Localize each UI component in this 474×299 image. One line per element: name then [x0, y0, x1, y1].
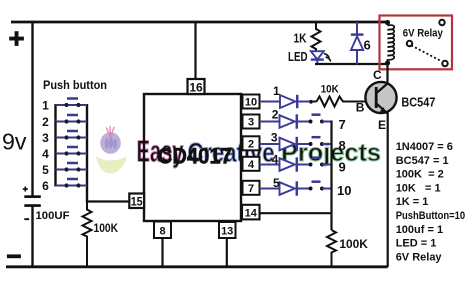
wire left rail upper	[31, 21, 33, 196]
svg-text:LED = 1: LED = 1	[396, 238, 437, 250]
pin 2	[243, 136, 260, 150]
wire pin13	[226, 238, 228, 267]
svg-text:13: 13	[221, 226, 233, 238]
svg-text:1: 1	[42, 98, 49, 112]
push buttons SW1-SW6	[42, 98, 87, 193]
svg-text:4: 4	[248, 159, 255, 171]
svg-text:10: 10	[245, 97, 257, 109]
node plus terminal	[9, 31, 24, 46]
parts list	[396, 141, 466, 263]
svg-text:BC547 = 1: BC547 = 1	[396, 155, 449, 167]
resistor R3 100K right	[327, 230, 336, 267]
diode D6	[351, 22, 371, 65]
svg-text:6V Relay: 6V Relay	[403, 27, 444, 39]
svg-text:2: 2	[248, 139, 254, 151]
wire pin16	[194, 22, 196, 81]
svg-text:B: B	[356, 101, 365, 115]
wire pin15	[87, 200, 130, 202]
relay contact dotted line	[412, 46, 442, 62]
svg-text:3: 3	[42, 131, 49, 145]
wire pushbutton left bus	[54, 104, 56, 187]
svg-text:2: 2	[272, 108, 279, 122]
pin 3	[243, 115, 260, 129]
relay box K1	[380, 16, 453, 70]
wire left rail lower	[31, 206, 33, 267]
svg-text:6V Relay: 6V Relay	[396, 251, 443, 263]
IC U1 CD4017 body	[144, 94, 241, 221]
svg-text:7: 7	[339, 117, 346, 132]
watermark text Easy Creative Projects	[137, 134, 382, 169]
pin 15	[129, 194, 144, 209]
svg-text:E: E	[378, 118, 386, 132]
svg-text:C: C	[373, 68, 382, 82]
svg-text:15: 15	[131, 194, 143, 208]
pin 13	[219, 222, 236, 238]
wire top bus	[11, 21, 388, 24]
watermark logo	[96, 127, 127, 174]
resistor R1 100K left	[83, 203, 92, 268]
wire bottom bus	[6, 265, 388, 268]
pin 10	[243, 95, 260, 109]
pin 16	[188, 79, 205, 95]
svg-text:6: 6	[42, 179, 49, 193]
diode D5 row + switch SW10	[260, 176, 352, 198]
node minus terminal	[7, 254, 21, 258]
svg-text:8: 8	[159, 226, 165, 238]
svg-text:6: 6	[364, 37, 371, 52]
svg-text:8: 8	[339, 138, 346, 153]
resistor R4 1K	[312, 22, 321, 52]
svg-text:10K: 10K	[321, 84, 339, 96]
diode D3 row + switch SW8	[260, 131, 346, 154]
svg-text:7: 7	[248, 183, 254, 195]
svg-text:2: 2	[42, 115, 49, 129]
svg-text:LED: LED	[288, 49, 308, 64]
resistor R2 10K	[317, 97, 375, 107]
wire pin14	[260, 212, 332, 214]
wire pin8	[161, 238, 163, 267]
svg-text:5: 5	[42, 163, 49, 177]
relay contacts	[407, 20, 448, 66]
svg-text:16: 16	[189, 81, 203, 95]
svg-text:9v: 9v	[2, 129, 27, 155]
wire pushbutton right bus	[86, 104, 88, 203]
pin 8	[154, 222, 171, 239]
svg-text:3: 3	[271, 131, 278, 145]
svg-text:1N4007 = 6: 1N4007 = 6	[396, 141, 453, 153]
svg-text:10K = 1: 10K = 1	[396, 182, 441, 194]
svg-text:100K: 100K	[339, 237, 368, 251]
svg-text:14: 14	[245, 208, 258, 220]
svg-text:10: 10	[337, 183, 351, 198]
wire LED to collector node	[315, 63, 388, 65]
svg-text:100UF: 100UF	[36, 210, 70, 222]
svg-text:4: 4	[272, 153, 279, 167]
relay coil L1	[385, 20, 394, 66]
svg-text:3: 3	[248, 117, 254, 129]
pin 7	[243, 181, 260, 195]
transistor Q1 BC547	[356, 63, 436, 267]
diode D1 row with 10K	[260, 84, 317, 108]
svg-text:5: 5	[273, 176, 280, 190]
svg-text:CD4017: CD4017	[158, 144, 232, 169]
capacitor C1 100UF	[24, 195, 41, 198]
pin 4	[243, 157, 260, 171]
svg-text:1: 1	[273, 84, 280, 98]
svg-text:Push button: Push button	[43, 78, 107, 92]
svg-text:100K: 100K	[94, 223, 119, 235]
svg-text:1K: 1K	[294, 31, 307, 46]
svg-text:4: 4	[42, 147, 49, 161]
svg-text:100uf = 1: 100uf = 1	[396, 224, 443, 236]
wire switch output bus	[330, 121, 332, 231]
diode D4 row + switch SW9	[260, 153, 346, 175]
LED D7	[288, 49, 330, 65]
svg-text:1K = 1: 1K = 1	[396, 196, 429, 208]
diode D2 row + switch SW7	[260, 108, 346, 133]
svg-text:PushButton=10: PushButton=10	[396, 210, 466, 222]
svg-text:BC547: BC547	[401, 96, 435, 110]
svg-text:9: 9	[339, 160, 346, 175]
svg-text:100K = 2: 100K = 2	[396, 169, 444, 181]
pin 14	[242, 205, 260, 220]
IC CD4017 outline	[144, 94, 241, 221]
